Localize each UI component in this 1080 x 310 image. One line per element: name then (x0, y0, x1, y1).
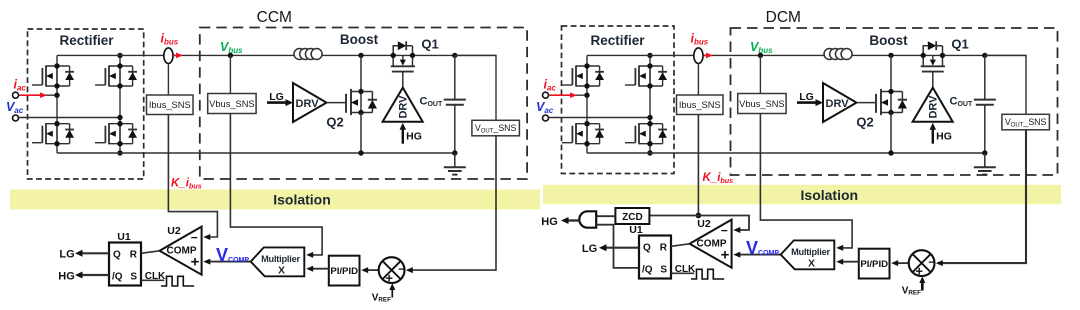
wire v_bus to Vbus_SNS (229, 55, 231, 93)
node v_bus (228, 53, 233, 58)
svg-text:PI/PID: PI/PID (860, 259, 888, 270)
node Q2 source rail (358, 150, 363, 155)
wire boost node to Q2 drain (890, 55, 892, 91)
wire V_REF arrow (391, 289, 393, 298)
wire Q2 source to rail (890, 113, 892, 154)
transistor Q2 (876, 89, 907, 115)
transistor Q2 (346, 89, 377, 115)
comparator U2 (160, 227, 202, 275)
AND gate U5 (579, 211, 596, 227)
wire ZCD to AND gate (596, 215, 615, 217)
isolation barrier band CCM (10, 190, 540, 210)
wire i_ac input (549, 94, 588, 96)
rectifier stage dashed box (28, 29, 144, 179)
node bridge top right (647, 53, 652, 58)
svg-text:LG: LG (59, 249, 74, 261)
wire PI/PID to multiplier (840, 261, 859, 263)
wire sensor to Ibus_SNS (167, 64, 169, 96)
sense block Ibus_SNS (677, 95, 724, 115)
svg-text:Vbus_SNS: Vbus_SNS (739, 99, 784, 109)
wire Q2 source to rail (360, 113, 362, 154)
wire Vbus_SNS to multiplier (230, 114, 322, 255)
summing junction (909, 250, 935, 276)
multiplier block (781, 240, 835, 269)
svg-text:DRV: DRV (296, 98, 320, 110)
PI/PID block (329, 256, 360, 286)
svg-text:−: − (721, 223, 728, 237)
svg-text:Q: Q (643, 243, 651, 254)
terminal i_ac (543, 92, 549, 98)
node boost switch (888, 53, 893, 58)
wire /Q to AND gate (596, 225, 638, 268)
wire PI/PID to multiplier (310, 268, 329, 270)
wire comparator to R (141, 251, 160, 254)
current sensor i_bus (694, 48, 703, 64)
svg-text:−: − (398, 262, 405, 276)
svg-text:HG: HG (406, 131, 422, 143)
svg-text:U1: U1 (117, 231, 131, 243)
transistor M4 (95, 121, 137, 146)
svg-text:ZCD: ZCD (622, 212, 643, 223)
current arrow i_ac (20, 94, 41, 96)
transistor M2 (95, 63, 137, 88)
wire bridge left leg (587, 55, 650, 153)
wire mixer to PI/PID (893, 262, 908, 264)
wire LG gate drive arrow (797, 101, 818, 104)
svg-text:X: X (278, 265, 285, 277)
wire sensor to Ibus_SNS (697, 64, 699, 96)
current arrow i_bus (704, 54, 708, 56)
transistor M3 (32, 121, 74, 146)
svg-text:+: + (191, 254, 200, 271)
transistor M7 (562, 121, 604, 146)
wire S to CLK (671, 272, 694, 274)
svg-text:+: + (385, 270, 393, 285)
svg-text:R: R (130, 250, 138, 261)
svg-text:PI/PID: PI/PID (330, 266, 358, 277)
svg-text:Rectifier: Rectifier (59, 33, 114, 48)
wire K_i_bus to comparator (168, 115, 217, 238)
svg-text:CLK: CLK (145, 271, 166, 282)
flip-flop U1 (109, 243, 141, 286)
svg-text:Ibus_SNS: Ibus_SNS (679, 100, 721, 110)
svg-text:Rectifier: Rectifier (590, 33, 645, 48)
node i_ac junction (54, 93, 59, 98)
transistor Q1 (921, 41, 946, 71)
svg-text:U2: U2 (697, 218, 711, 230)
wire driver to Q2 gate (327, 102, 347, 104)
wire dc bus top rail (57, 54, 496, 56)
svg-text:DRV: DRV (398, 95, 410, 119)
CCM converter dashed box (200, 28, 527, 180)
node output (982, 53, 987, 58)
terminal v_ac (13, 115, 19, 121)
svg-text:Q1: Q1 (951, 37, 968, 52)
svg-text:S: S (130, 272, 137, 283)
svg-text:+: + (915, 263, 923, 278)
transistor M1 (32, 63, 74, 88)
svg-text:Boost: Boost (340, 32, 379, 47)
DCM converter dashed box (731, 28, 1058, 175)
svg-text:/Q: /Q (112, 272, 123, 283)
wire K_i_bus down (697, 115, 699, 216)
wire multiplier out to comparator (207, 261, 251, 263)
node v_ac junction (647, 115, 652, 120)
wire return bottom rail (587, 152, 985, 154)
rectifier stage dashed box (562, 26, 675, 174)
svg-text:−: − (928, 255, 935, 269)
svg-text:HG: HG (541, 216, 558, 228)
wire bridge left leg (57, 55, 120, 153)
wire HG gate drive arrow (932, 128, 934, 144)
gate driver U3 (293, 83, 327, 122)
wire V_OUT_SNS to mixer (408, 136, 496, 270)
wire i_ac input (19, 94, 58, 96)
wire Q to LG (603, 247, 640, 249)
svg-text:/Q: /Q (642, 265, 653, 276)
sense block V_OUT_SNS (472, 120, 520, 136)
node bridge bottom right (117, 150, 122, 155)
wire comparator to R (671, 244, 690, 247)
ZCD block (615, 208, 649, 224)
capacitor C_OUT (974, 55, 996, 153)
wire tap to comparator (649, 216, 749, 231)
svg-text:Boost: Boost (869, 33, 908, 48)
comparator U2 (690, 220, 732, 268)
node cap bottom (452, 150, 457, 155)
svg-text:+: + (721, 247, 730, 264)
node i_ac junction (584, 93, 589, 98)
svg-text:DRV: DRV (826, 98, 850, 110)
svg-text:HG: HG (58, 270, 75, 282)
node bridge bottom right (647, 150, 652, 155)
node Q2 source rail (888, 150, 893, 155)
current arrow i_ac (550, 94, 571, 96)
transistor Q1 (391, 41, 416, 71)
gate driver U4 (383, 88, 423, 122)
svg-text:CLK: CLK (675, 264, 696, 275)
transistor M6 (625, 63, 667, 88)
wire /Q to HG (79, 274, 110, 276)
wire Q1 gate lead (402, 72, 404, 88)
sense block Vbus_SNS (738, 94, 786, 114)
wire output to V_OUT_SNS (985, 55, 1026, 114)
current arrow i_bus (174, 54, 178, 56)
svg-text:HG: HG (936, 131, 952, 143)
ground (444, 153, 466, 175)
svg-text:Q: Q (113, 250, 121, 261)
wire v_ac input (549, 117, 651, 119)
svg-text:−: − (191, 230, 198, 244)
wire Q to LG (79, 252, 110, 254)
wire V_REF arrow (921, 282, 924, 291)
capacitor C_OUT (444, 55, 466, 153)
sense block V_OUT_SNS (1002, 114, 1050, 130)
wire dc bus top rail (587, 54, 1026, 56)
svg-text:Ibus_SNS: Ibus_SNS (149, 100, 191, 110)
inductor L (824, 49, 852, 60)
ground (974, 153, 996, 175)
node bridge top right (117, 53, 122, 58)
node v_ac junction (117, 115, 122, 120)
svg-text:CCM: CCM (257, 9, 292, 26)
svg-text:Isolation: Isolation (273, 191, 331, 207)
gate driver U6 (823, 83, 857, 122)
wire Vbus_SNS to multiplier (760, 114, 852, 248)
wire output to V_OUT_SNS (455, 55, 496, 120)
svg-text:Q2: Q2 (326, 115, 343, 130)
flip-flop U1 (639, 236, 671, 279)
svg-text:DRV: DRV (928, 95, 940, 119)
wire S to CLK (141, 279, 164, 281)
wire multiplier out to comparator (737, 254, 781, 256)
multiplier block (251, 247, 305, 276)
svg-text:Q2: Q2 (856, 115, 873, 130)
wire AND to HG (565, 219, 579, 221)
wire V_OUT_SNS to mixer (938, 130, 1026, 263)
clock waveform (691, 269, 724, 279)
wire mixer to PI/PID (363, 269, 378, 271)
wire v_bus to Vbus_SNS (759, 55, 761, 93)
svg-text:R: R (660, 243, 668, 254)
node cap bottom (982, 150, 987, 155)
svg-text:U2: U2 (167, 225, 181, 237)
inductor L (294, 49, 322, 60)
svg-text:DCM: DCM (766, 9, 801, 26)
clock waveform (161, 276, 194, 286)
wire Q1 gate lead (932, 72, 934, 88)
gate driver U7 (913, 88, 953, 122)
svg-text:Multiplier: Multiplier (261, 254, 300, 264)
transistor M5 (562, 63, 604, 88)
terminal i_ac (13, 92, 19, 98)
svg-text:Multiplier: Multiplier (791, 247, 830, 257)
svg-text:Isolation: Isolation (801, 187, 859, 203)
svg-text:Vbus_SNS: Vbus_SNS (209, 99, 254, 109)
wire driver to Q2 gate (857, 102, 877, 104)
transistor M8 (625, 121, 667, 146)
node ZCD tap (696, 213, 702, 219)
svg-text:LG: LG (582, 243, 597, 255)
svg-text:U1: U1 (629, 224, 643, 236)
svg-text:Q1: Q1 (421, 37, 438, 52)
svg-text:S: S (660, 265, 667, 276)
summing junction (379, 257, 405, 283)
PI/PID block (859, 249, 890, 279)
wire LG gate drive arrow (267, 101, 288, 104)
wire HG gate drive arrow (402, 128, 404, 144)
sense block Ibus_SNS (147, 95, 194, 115)
wire v_ac input (19, 117, 121, 119)
sense block Vbus_SNS (208, 94, 256, 114)
wire return bottom rail (57, 152, 455, 154)
current sensor i_bus (164, 48, 173, 64)
wire boost node to Q2 drain (360, 55, 362, 91)
svg-text:X: X (808, 258, 815, 270)
isolation barrier band DCM (543, 185, 1061, 205)
node boost switch (358, 53, 363, 58)
node v_bus (758, 53, 763, 58)
node output (452, 53, 457, 58)
terminal v_ac (543, 115, 549, 121)
